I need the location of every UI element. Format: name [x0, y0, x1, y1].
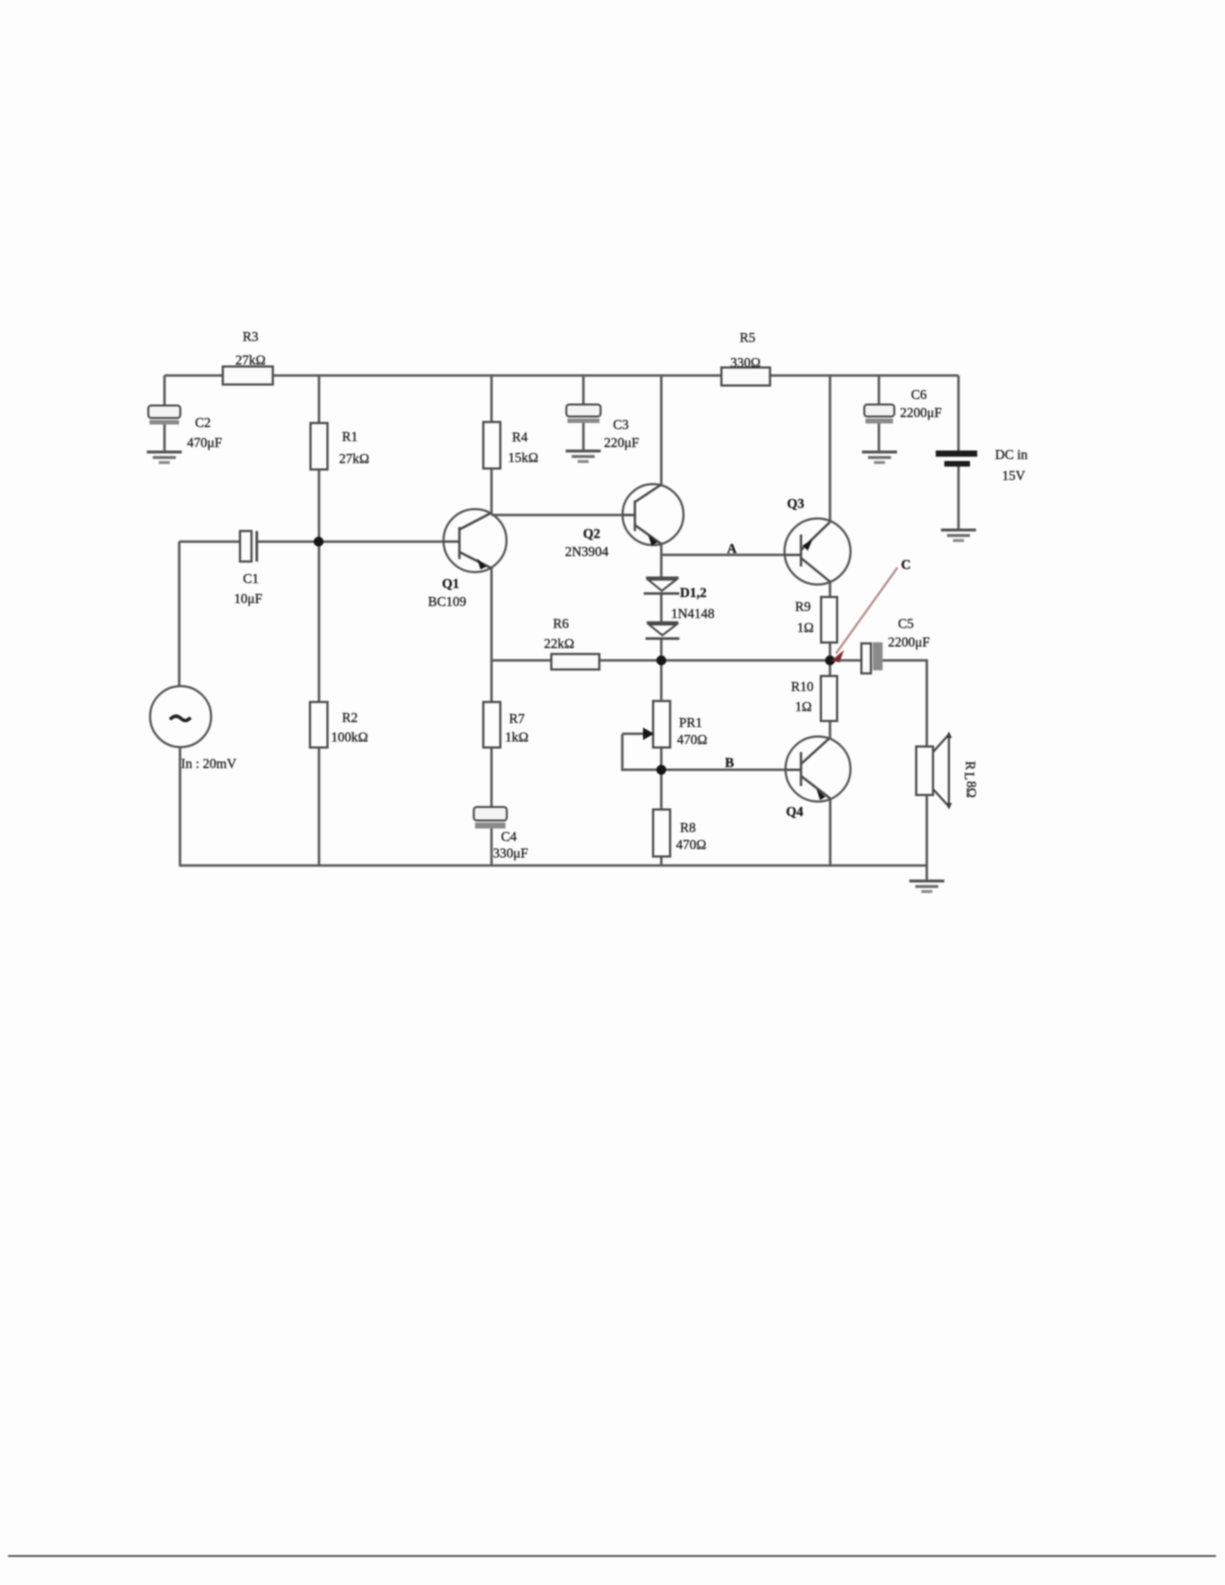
- svg-text:Q3: Q3: [787, 496, 805, 511]
- wire node B to Q4 base: [661, 769, 786, 772]
- svg-text:1Ω: 1Ω: [795, 699, 812, 714]
- svg-text:R: R: [963, 761, 978, 770]
- svg-text:2200μF: 2200μF: [900, 405, 942, 420]
- wire mid node to PR1: [660, 660, 663, 701]
- wire speaker to ground: [926, 795, 929, 881]
- svg-text:R2: R2: [342, 710, 358, 725]
- capacitor C4: [474, 807, 529, 861]
- svg-text:1kΩ: 1kΩ: [505, 730, 529, 745]
- transistor Q2: [565, 484, 684, 559]
- ground for C3: [566, 451, 601, 462]
- svg-text:A: A: [727, 541, 737, 556]
- resistor R9: [795, 597, 837, 643]
- svg-text:R3: R3: [243, 329, 259, 344]
- ground speaker: [909, 881, 944, 892]
- resistor R2: [310, 702, 368, 748]
- wire C1 to node: [257, 540, 319, 543]
- resistor R1: [311, 423, 370, 470]
- svg-text:100kΩ: 100kΩ: [331, 730, 368, 745]
- svg-text:27kΩ: 27kΩ: [235, 353, 265, 368]
- potentiometer PR1: [643, 701, 707, 748]
- wire R2 bottom to rail: [318, 748, 321, 866]
- svg-text:C6: C6: [911, 387, 927, 402]
- wire mid rail R6 to C5: [492, 659, 862, 662]
- resistor R7: [483, 702, 528, 748]
- wire node A to Q3 base: [661, 554, 785, 557]
- battery DC in: [936, 447, 1028, 483]
- wire input left drop: [178, 542, 181, 687]
- speaker RL: [916, 732, 979, 810]
- wire Q2 emitter stem: [660, 544, 663, 578]
- resistor R4: [483, 422, 538, 469]
- wire R4 to Q1 collector: [490, 469, 493, 514]
- wire R9 to node C to R10: [829, 643, 832, 677]
- transistor Q3: [785, 496, 851, 585]
- wire R1 bottom to node: [318, 470, 321, 543]
- svg-text:C: C: [901, 557, 911, 572]
- wire top supply rail: [165, 374, 959, 377]
- svg-text:R8: R8: [680, 820, 696, 835]
- svg-text:PR1: PR1: [679, 715, 702, 730]
- wire C3 to ground: [582, 422, 585, 451]
- wire C6 stem: [878, 376, 881, 406]
- svg-text:220μF: 220μF: [604, 435, 639, 450]
- source In 20mV: [150, 686, 237, 771]
- resistor R10: [791, 676, 837, 721]
- svg-text:C4: C4: [501, 829, 517, 844]
- wire R8 to bottom rail: [660, 857, 663, 866]
- ground for C2: [147, 452, 182, 463]
- svg-text:C3: C3: [613, 417, 629, 432]
- wire C3 stem: [582, 376, 585, 406]
- capacitor C5: [861, 616, 930, 673]
- svg-text:15V: 15V: [1002, 468, 1026, 483]
- transistor Q4: [786, 737, 851, 820]
- node C junction: [825, 655, 835, 665]
- wire C2 stem: [163, 376, 166, 407]
- wire C5 to speaker corner: [882, 660, 926, 746]
- wire D1 to D2: [660, 594, 663, 622]
- node input-R1 junction: [314, 537, 324, 547]
- bottom page rule: [8, 1555, 1216, 1557]
- wire source to bottom rail: [179, 747, 182, 866]
- wire node to R2 top: [318, 542, 321, 702]
- svg-text:C1: C1: [243, 571, 259, 586]
- svg-text:8Ω: 8Ω: [964, 781, 979, 798]
- ground for C6: [862, 452, 897, 463]
- diode D2: [646, 623, 680, 639]
- svg-text:470Ω: 470Ω: [677, 732, 707, 747]
- red callout line to node C: [832, 557, 911, 663]
- wire Q3 collector: [829, 376, 832, 522]
- wire battery to ground: [957, 467, 960, 530]
- capacitor C1: [234, 531, 263, 606]
- wire PR1 to node B: [660, 748, 663, 810]
- svg-text:470Ω: 470Ω: [676, 837, 706, 852]
- svg-text:C5: C5: [898, 616, 914, 631]
- capacitor C2: [148, 406, 222, 451]
- wire D2 to mid node: [660, 639, 663, 661]
- wire DC branch down: [957, 376, 960, 451]
- wire Q1 collector to Q2 base: [492, 514, 624, 517]
- svg-text:D1,2: D1,2: [680, 585, 707, 600]
- wire PR1 wiper loop: [622, 734, 661, 770]
- svg-text:L: L: [962, 772, 977, 780]
- wire Q1 base: [319, 540, 444, 543]
- svg-text:R10: R10: [791, 679, 814, 694]
- svg-text:330μF: 330μF: [493, 846, 528, 861]
- svg-text:BC109: BC109: [428, 594, 467, 609]
- svg-text:2N3904: 2N3904: [565, 544, 609, 559]
- wire input top: [179, 540, 240, 543]
- resistor R3: [223, 329, 273, 385]
- transistor Q1: [428, 509, 507, 609]
- wire R10 to Q4 collector: [829, 721, 832, 740]
- capacitor C6: [864, 387, 942, 424]
- svg-text:R4: R4: [512, 430, 528, 445]
- wire Q3 emitter to R9: [829, 582, 832, 597]
- svg-text:Q2: Q2: [583, 526, 601, 541]
- wire bottom rail: [179, 864, 927, 867]
- wire Q2 collector: [660, 376, 663, 485]
- wire C2 to ground: [163, 424, 166, 452]
- svg-text:1N4148: 1N4148: [671, 606, 715, 621]
- svg-text:R6: R6: [553, 616, 569, 631]
- wire R7 to C4: [490, 748, 493, 808]
- svg-text:22kΩ: 22kΩ: [544, 636, 574, 651]
- svg-text:1Ω: 1Ω: [797, 620, 814, 635]
- wire Q4 emitter to bottom rail: [829, 799, 832, 866]
- svg-text:2200μF: 2200μF: [888, 635, 930, 650]
- svg-text:Q1: Q1: [442, 576, 460, 591]
- svg-text:R9: R9: [795, 599, 811, 614]
- svg-text:In : 20mV: In : 20mV: [181, 756, 237, 771]
- resistor R6: [544, 616, 599, 670]
- svg-text:C2: C2: [195, 415, 211, 430]
- capacitor C3: [566, 405, 639, 451]
- svg-text:R5: R5: [740, 330, 756, 345]
- svg-text:Q4: Q4: [786, 804, 804, 819]
- svg-text:DC in: DC in: [995, 447, 1028, 462]
- svg-text:R7: R7: [509, 711, 525, 726]
- resistor R5: [721, 330, 770, 386]
- svg-text:B: B: [725, 755, 734, 770]
- svg-text:330Ω: 330Ω: [730, 355, 760, 370]
- node D2 junction: [656, 655, 666, 665]
- diode D1: [644, 578, 715, 621]
- wire Q1 emitter to R7: [490, 568, 493, 702]
- node PR1 bottom junction: [656, 765, 666, 775]
- svg-text:R1: R1: [342, 429, 358, 444]
- wire R1 top: [318, 376, 321, 424]
- wire R4 top: [490, 376, 493, 423]
- wire C4 to bottom rail: [490, 829, 493, 866]
- svg-text:10μF: 10μF: [234, 591, 263, 606]
- ground for battery: [941, 530, 976, 541]
- wire C6 to ground: [878, 423, 881, 452]
- svg-text:470μF: 470μF: [187, 435, 222, 450]
- resistor R8: [653, 810, 706, 857]
- svg-text:27kΩ: 27kΩ: [339, 451, 369, 466]
- svg-text:15kΩ: 15kΩ: [508, 450, 538, 465]
